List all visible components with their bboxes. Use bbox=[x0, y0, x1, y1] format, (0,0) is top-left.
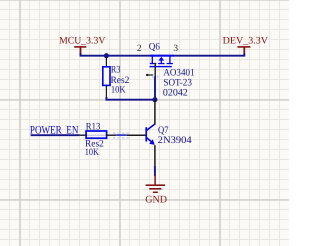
wire emitter to GND bbox=[154, 166, 156, 176]
wire POWER_EN to R13 bbox=[31, 134, 80, 136]
svg-text:Q6: Q6 bbox=[149, 41, 160, 52]
svg-text:GND: GND bbox=[145, 194, 167, 205]
pin R13 left bbox=[80, 134, 86, 136]
junction dot at R3 top bbox=[104, 53, 109, 58]
ground bbox=[145, 175, 167, 205]
base bar bbox=[145, 127, 147, 141]
pin 1 stub with dot bbox=[147, 74, 154, 76]
drain contact bbox=[169, 57, 171, 64]
pin R3 bottom bbox=[105, 86, 107, 98]
wire gate to node bbox=[154, 77, 156, 100]
bulk arrow bbox=[160, 60, 162, 63]
power port DEV_3.3V bbox=[223, 36, 269, 53]
compile mask dashes around wire bbox=[113, 132, 130, 134]
collector diagonal bbox=[146, 124, 155, 131]
wire top rail bbox=[81, 53, 245, 56]
svg-text:10K: 10K bbox=[111, 85, 126, 96]
svg-text:02042: 02042 bbox=[163, 88, 188, 99]
pin Q7 emitter bbox=[154, 145, 156, 166]
pin Q7 collector bbox=[154, 100, 156, 125]
resistor R3 bbox=[103, 67, 110, 86]
svg-text:3: 3 bbox=[173, 44, 178, 54]
wire under R13 bbox=[86, 134, 107, 136]
pin Q6 gate (pin 1) bbox=[154, 63, 156, 77]
pin R3 top bbox=[105, 57, 107, 68]
svg-text:2N3904: 2N3904 bbox=[158, 135, 192, 146]
svg-text:2: 2 bbox=[137, 44, 142, 54]
resistor R13 bbox=[86, 131, 107, 138]
emitter diagonal bbox=[146, 138, 152, 143]
wire R13 to Q7 base bbox=[116, 134, 127, 136]
wire R3 bottom to gate node bbox=[106, 97, 154, 100]
svg-text:DEV_3.3V: DEV_3.3V bbox=[223, 36, 269, 47]
transistor Q6 (AO3401 PMOS) bbox=[150, 57, 173, 68]
emitter arrowhead bbox=[149, 139, 155, 145]
power port MCU_3.3V bbox=[59, 36, 106, 55]
pin R13 right bbox=[107, 134, 117, 136]
wire rail blue segment under Q6 bbox=[150, 55, 174, 57]
svg-text:MCU_3.3V: MCU_3.3V bbox=[59, 36, 106, 47]
transistor Q7 (2N3904 NPN) bbox=[145, 124, 155, 145]
svg-text:R13: R13 bbox=[86, 121, 101, 132]
source contact bbox=[151, 57, 153, 64]
gate bar bbox=[150, 66, 172, 67]
junction dot gate node bbox=[152, 97, 157, 102]
compile mask specks at gate pin bbox=[152, 75, 154, 78]
pin Q7 base bbox=[127, 134, 146, 136]
svg-text:10K: 10K bbox=[85, 147, 99, 158]
svg-text:R3: R3 bbox=[111, 65, 121, 76]
